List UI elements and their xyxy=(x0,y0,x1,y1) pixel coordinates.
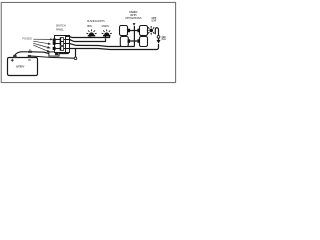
light fixture bottom-right xyxy=(140,37,148,47)
wire tap stern light xyxy=(105,36,107,38)
leader arrow to fuse 2 xyxy=(33,41,51,45)
wire interior link bottom xyxy=(130,40,137,42)
wire battery positive feed xyxy=(15,52,28,55)
connector ring deck plug xyxy=(157,36,160,39)
wire battery negative return xyxy=(31,56,74,58)
light fixture top-left xyxy=(120,26,128,36)
wire ground riser xyxy=(75,48,77,57)
wire interior riser xyxy=(133,26,135,47)
leader arrow to fuse main xyxy=(33,45,50,52)
wire fuse to panel xyxy=(59,53,68,54)
leader arrow to fuse 1 xyxy=(33,38,53,40)
lamp night light xyxy=(147,26,154,35)
wire night light cord xyxy=(155,28,158,36)
wire running lights feed xyxy=(67,36,110,38)
svg-text:PLUG: PLUG xyxy=(162,38,167,41)
fuse main holder xyxy=(49,52,59,56)
lamp stern running light xyxy=(102,29,112,36)
wire running lights return xyxy=(70,38,106,41)
battery B1 xyxy=(8,55,38,76)
switch S2 xyxy=(56,42,70,46)
label DECK PLUG xyxy=(162,36,167,41)
wire interior lights feed xyxy=(70,44,135,47)
leader arrow to fuse 3 xyxy=(33,43,50,48)
lamp bow running light xyxy=(86,29,96,36)
wire tap bow light xyxy=(89,36,91,38)
fuse F3 xyxy=(53,47,56,50)
svg-text:FUSES: FUSES xyxy=(22,37,32,41)
switch panel box xyxy=(55,35,70,52)
fuse F1 xyxy=(53,39,56,42)
connector ring negative xyxy=(74,57,77,60)
wire deck plug return xyxy=(70,44,159,50)
light fixture bottom-left xyxy=(120,37,128,47)
arrow interior feed xyxy=(133,23,136,26)
border frame xyxy=(1,2,175,82)
wire interior link top xyxy=(130,30,137,32)
switch block top-left xyxy=(128,29,131,33)
label INTERIOR LIGHTS WITH SWITCHES xyxy=(125,10,142,20)
switch S3 xyxy=(56,47,70,51)
switch S1 xyxy=(56,38,70,42)
switch block bottom-right xyxy=(137,39,140,43)
connector terminal lug xyxy=(28,49,33,53)
label SWITCH PANEL xyxy=(56,24,66,32)
switch block top-right xyxy=(137,29,140,33)
plug deck arrow xyxy=(157,38,161,43)
fuse F2 xyxy=(53,42,56,45)
wire feed to main fuse xyxy=(33,52,49,54)
light fixture top-right xyxy=(140,26,148,36)
label NIGHT LIGHT xyxy=(152,16,157,23)
switch block bottom-left xyxy=(128,39,131,43)
